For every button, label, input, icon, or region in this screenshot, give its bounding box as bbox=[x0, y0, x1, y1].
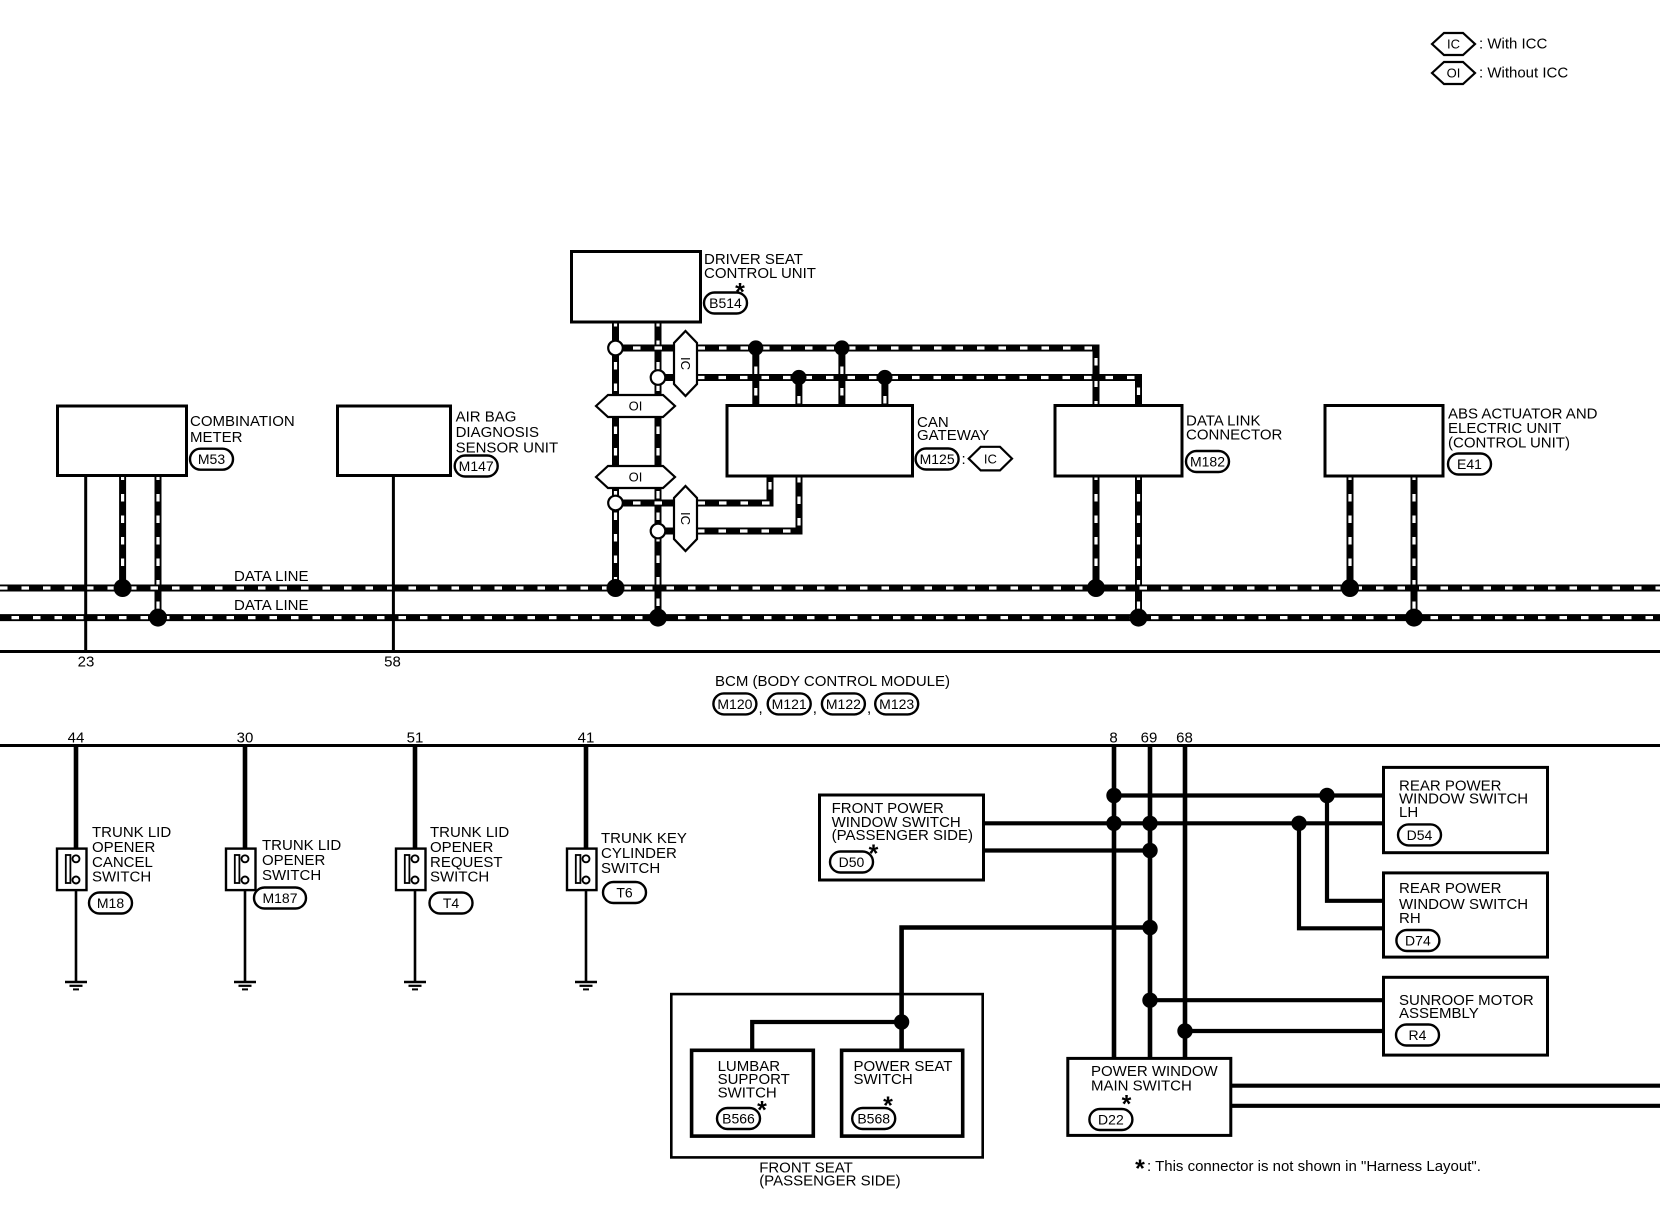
wire BCM pin 51 to trunk lid opener request switch bbox=[413, 746, 418, 856]
switch symbol trunk lid opener request switch T4 bbox=[396, 849, 426, 891]
wire CAN gateway lower wire A bbox=[616, 476, 771, 504]
svg-text:MAIN SWITCH: MAIN SWITCH bbox=[1091, 1077, 1192, 1094]
svg-text:M123: M123 bbox=[879, 696, 914, 712]
hexagon flag IC flag CAN gateway bbox=[969, 447, 1012, 471]
svg-text:,: , bbox=[867, 700, 871, 717]
junction data1-ABS bbox=[1341, 579, 1359, 597]
svg-text:DATA LINE: DATA LINE bbox=[234, 597, 308, 614]
svg-text:44: 44 bbox=[68, 730, 85, 747]
wire CAN line 2 to data link connector bbox=[658, 378, 1139, 406]
svg-text:41: 41 bbox=[578, 730, 595, 747]
svg-text:: With ICC: : With ICC bbox=[1479, 36, 1548, 53]
svg-text:M18: M18 bbox=[97, 895, 124, 911]
wire to rear power window switch LH pin 1 bbox=[1114, 793, 1384, 797]
junction CAN2-gateway B bbox=[877, 370, 892, 385]
svg-text:,: , bbox=[813, 700, 817, 717]
connector label R4 bbox=[1396, 1025, 1439, 1046]
wire drop to rear power window switch RH pin 1 bbox=[1327, 796, 1384, 901]
junction CAN1-gateway A bbox=[748, 340, 763, 355]
ground bbox=[404, 982, 426, 989]
connector label D54 bbox=[1398, 824, 1441, 845]
connector label M120 bbox=[713, 693, 756, 714]
wire DATA LINE bus 1 bbox=[0, 585, 1660, 592]
hexagon flag IC lower bbox=[674, 486, 697, 551]
connector label D74 bbox=[1396, 930, 1439, 951]
svg-text:T4: T4 bbox=[443, 895, 460, 911]
lumbar support switch B566 bbox=[692, 1050, 814, 1136]
switch symbol trunk key cylinder switch T6 bbox=[567, 849, 597, 891]
ground bbox=[65, 982, 87, 989]
switch symbol trunk lid opener switch M187 bbox=[226, 849, 256, 891]
svg-text:CONTROL UNIT: CONTROL UNIT bbox=[704, 265, 816, 282]
driver seat control unit B514 bbox=[572, 252, 701, 323]
svg-text:(PASSENGER SIDE): (PASSENGER SIDE) bbox=[832, 827, 973, 844]
svg-text:68: 68 bbox=[1176, 730, 1193, 747]
svg-text:D74: D74 bbox=[1405, 933, 1431, 949]
wire power window main switch output 1 bbox=[1231, 1084, 1660, 1088]
svg-text:SWITCH: SWITCH bbox=[430, 869, 489, 886]
svg-text:SWITCH: SWITCH bbox=[854, 1071, 913, 1088]
svg-text:BCM (BODY CONTROL MODULE): BCM (BODY CONTROL MODULE) bbox=[715, 673, 950, 690]
svg-text:M121: M121 bbox=[772, 696, 807, 712]
junction pin69-power seat bbox=[1142, 920, 1157, 935]
wire ABS drop 1 bbox=[1347, 476, 1354, 589]
junction power seat-lumbar bbox=[894, 1014, 909, 1029]
connector label T4 bbox=[430, 893, 473, 914]
svg-text:AIR BAG: AIR BAG bbox=[456, 408, 517, 425]
hexagon flag legend OI bbox=[1432, 62, 1475, 84]
svg-text:23: 23 bbox=[78, 654, 95, 671]
wire trunk lid opener request switch to ground bbox=[414, 884, 417, 982]
wire combination meter drop 1 bbox=[119, 476, 126, 589]
wire stub CAN gateway pin 3 bbox=[795, 378, 802, 406]
svg-text:CONNECTOR: CONNECTOR bbox=[1186, 427, 1283, 444]
connector label B566 bbox=[717, 1108, 760, 1129]
wire stub CAN gateway pin 4 bbox=[881, 378, 888, 406]
junction pin8-LH2 bbox=[1106, 816, 1121, 831]
svg-text:DATA LINE: DATA LINE bbox=[234, 568, 308, 585]
wire BCM pin 68 vertical bbox=[1183, 746, 1188, 1059]
svg-text:69: 69 bbox=[1141, 730, 1158, 747]
junction LH2-RH drop bbox=[1291, 816, 1306, 831]
wire trunk lid opener cancel switch to ground bbox=[75, 884, 78, 982]
junction CAN2-gateway A bbox=[791, 370, 806, 385]
junction pin69-LH2 bbox=[1142, 816, 1157, 831]
connector label B514 bbox=[704, 293, 747, 314]
connector label E41 bbox=[1448, 454, 1491, 475]
connector label D50 bbox=[830, 852, 873, 873]
connector label M18 bbox=[89, 893, 132, 914]
connector label M187 bbox=[254, 888, 306, 909]
svg-text:M53: M53 bbox=[198, 451, 225, 467]
front power window switch D50 bbox=[820, 795, 984, 880]
svg-text:IC: IC bbox=[678, 512, 693, 525]
rear power window switch LH D54 bbox=[1384, 767, 1548, 852]
svg-text:,: , bbox=[759, 700, 763, 717]
hexagon flag IC upper bbox=[674, 331, 697, 396]
air bag diagnosis sensor unit M147 bbox=[338, 406, 451, 476]
svg-text:*: * bbox=[1135, 1155, 1145, 1183]
wire CAN line 1 to data link connector bbox=[616, 348, 1097, 406]
svg-text:B514: B514 bbox=[709, 295, 742, 311]
svg-text:: This connector is not shown: : This connector is not shown in "Harnes… bbox=[1147, 1158, 1481, 1175]
junction pin69-sunroof bbox=[1142, 993, 1157, 1008]
wire driver seat control unit CAN-L vertical bbox=[612, 322, 619, 588]
junction data2-data link connector bbox=[1130, 609, 1148, 627]
ground bbox=[234, 982, 256, 989]
svg-text:D54: D54 bbox=[1407, 827, 1433, 843]
svg-text:B568: B568 bbox=[857, 1111, 890, 1127]
data link connector M182 bbox=[1055, 406, 1182, 477]
svg-text:D50: D50 bbox=[839, 854, 865, 870]
connector label M121 bbox=[768, 693, 811, 714]
svg-text:30: 30 bbox=[237, 730, 254, 747]
hexagon flag legend IC bbox=[1432, 33, 1475, 55]
svg-text:LH: LH bbox=[1399, 804, 1418, 821]
wire trunk key cylinder switch to ground bbox=[585, 884, 588, 982]
svg-text:WINDOW SWITCH: WINDOW SWITCH bbox=[1399, 791, 1528, 808]
junction pin68-sunroof bbox=[1177, 1023, 1192, 1038]
connector junction lower A tap bbox=[608, 496, 623, 511]
wire stub CAN gateway pin 2 bbox=[838, 348, 845, 406]
junction data1-driver seat bbox=[607, 579, 625, 597]
switch symbol trunk lid opener cancel switch M18 bbox=[57, 849, 87, 891]
junction pin69-front window bbox=[1142, 843, 1157, 858]
wire BCM pin 69 vertical bbox=[1148, 746, 1153, 1059]
hexagon flag OI lower bbox=[596, 466, 675, 488]
svg-text:T6: T6 bbox=[616, 885, 633, 901]
connector label B568 bbox=[852, 1108, 895, 1129]
svg-text::: : bbox=[962, 451, 966, 468]
svg-text:(CONTROL UNIT): (CONTROL UNIT) bbox=[1448, 434, 1570, 451]
connector label T6 bbox=[603, 882, 646, 903]
wire BCM pin 41 to trunk key cylinder switch bbox=[584, 746, 589, 856]
wire power window main switch output 2 bbox=[1231, 1104, 1660, 1108]
svg-text:METER: METER bbox=[190, 429, 243, 446]
svg-text:SWITCH: SWITCH bbox=[262, 867, 321, 884]
ABS actuator E41 bbox=[1325, 406, 1443, 477]
front seat (passenger side) enclosure bbox=[671, 994, 982, 1157]
svg-text:IC: IC bbox=[1447, 37, 1460, 52]
wire BCM pin 8 vertical bbox=[1112, 746, 1117, 1059]
svg-text:M125: M125 bbox=[920, 451, 955, 467]
power seat switch B568 bbox=[842, 1050, 963, 1136]
svg-text:OI: OI bbox=[629, 470, 643, 485]
svg-text:: Without ICC: : Without ICC bbox=[1479, 65, 1568, 82]
svg-text:M122: M122 bbox=[826, 696, 861, 712]
connector label M122 bbox=[822, 693, 865, 714]
connector junction CAN1 tap bbox=[608, 341, 623, 356]
svg-text:58: 58 bbox=[384, 654, 401, 671]
svg-text:8: 8 bbox=[1109, 730, 1117, 747]
svg-text:(PASSENGER SIDE): (PASSENGER SIDE) bbox=[759, 1173, 900, 1190]
junction CAN1-gateway B bbox=[834, 340, 849, 355]
svg-text:E41: E41 bbox=[1457, 456, 1482, 472]
wire BCM pin 30 to trunk lid opener switch bbox=[243, 746, 248, 856]
combination meter M53 bbox=[58, 406, 187, 476]
connector label M147 bbox=[455, 456, 498, 477]
svg-text:B566: B566 bbox=[722, 1111, 755, 1127]
junction data1-combination meter bbox=[114, 579, 132, 597]
wire stub CAN gateway pin 1 bbox=[752, 348, 759, 406]
BCM top edge line bbox=[0, 650, 1660, 653]
junction data2-driver seat bbox=[649, 609, 667, 627]
svg-text:SWITCH: SWITCH bbox=[601, 860, 660, 877]
junction LH1-RH drop bbox=[1319, 788, 1334, 803]
wire to sunroof motor assembly pin 1 bbox=[1150, 998, 1384, 1002]
svg-text:M187: M187 bbox=[262, 890, 297, 906]
power window main switch D22 bbox=[1068, 1058, 1231, 1135]
svg-text:M182: M182 bbox=[1190, 454, 1225, 470]
svg-text:51: 51 bbox=[407, 730, 424, 747]
wire combination meter pin 23 bbox=[84, 476, 87, 652]
wire BCM pin 44 to trunk lid opener cancel switch bbox=[74, 746, 79, 856]
svg-text:D22: D22 bbox=[1098, 1112, 1124, 1128]
connector label M182 bbox=[1186, 451, 1229, 472]
wire front power window switch lower bbox=[983, 848, 1150, 852]
svg-text:RH: RH bbox=[1399, 910, 1421, 927]
svg-text:IC: IC bbox=[678, 357, 693, 370]
wire combination meter drop 2 bbox=[155, 476, 162, 619]
svg-text:COMBINATION: COMBINATION bbox=[190, 413, 295, 430]
hexagon flag OI upper bbox=[596, 395, 675, 417]
wire trunk lid opener switch to ground bbox=[244, 884, 247, 982]
connector label M123 bbox=[875, 693, 918, 714]
svg-text:SENSOR UNIT: SENSOR UNIT bbox=[456, 439, 559, 456]
rear power window switch RH D74 bbox=[1384, 873, 1548, 957]
connector label D22 bbox=[1089, 1109, 1132, 1130]
ground bbox=[575, 982, 597, 989]
wire drop to rear power window switch RH pin 2 bbox=[1299, 823, 1384, 928]
svg-text:OI: OI bbox=[1447, 66, 1461, 81]
wire front power window switch to rear power window switch LH pin 2 bbox=[983, 821, 1384, 825]
connector junction lower B tap bbox=[651, 524, 666, 539]
svg-text:OI: OI bbox=[629, 399, 643, 414]
wire power seat switch riser bbox=[902, 928, 1150, 1051]
wire CAN gateway lower wire B bbox=[658, 476, 799, 532]
wire data link connector drop 2 bbox=[1135, 476, 1142, 619]
svg-text:SWITCH: SWITCH bbox=[718, 1085, 777, 1102]
connector junction CAN2 tap bbox=[651, 370, 666, 385]
wire air bag pin 58 bbox=[392, 476, 395, 652]
junction data2-combination meter bbox=[149, 609, 167, 627]
CAN gateway M125 bbox=[727, 406, 913, 477]
svg-text:ASSEMBLY: ASSEMBLY bbox=[1399, 1005, 1479, 1022]
wire data link connector drop 1 bbox=[1093, 476, 1100, 589]
svg-text:GATEWAY: GATEWAY bbox=[917, 427, 989, 444]
sunroof motor assembly R4 bbox=[1384, 977, 1548, 1055]
wire branch to lumbar support switch bbox=[752, 1022, 901, 1050]
wire driver seat control unit CAN-H vertical bbox=[655, 322, 662, 618]
junction data1-data link connector bbox=[1087, 579, 1105, 597]
svg-text:M147: M147 bbox=[459, 458, 494, 474]
svg-text:R4: R4 bbox=[1409, 1027, 1427, 1043]
junction pin8-LH1 bbox=[1106, 788, 1121, 803]
svg-text:SWITCH: SWITCH bbox=[92, 869, 151, 886]
connector label M53 bbox=[190, 449, 233, 470]
wire to sunroof motor assembly pin 2 bbox=[1185, 1029, 1384, 1033]
svg-text:IC: IC bbox=[984, 451, 997, 466]
junction data2-ABS bbox=[1405, 609, 1423, 627]
BCM bottom edge line bbox=[0, 744, 1660, 747]
wire ABS drop 2 bbox=[1411, 476, 1418, 619]
connector label M125 bbox=[916, 449, 959, 470]
svg-text:REAR POWER: REAR POWER bbox=[1399, 880, 1502, 897]
wire DATA LINE bus 2 bbox=[0, 614, 1660, 621]
svg-text:M120: M120 bbox=[717, 696, 752, 712]
